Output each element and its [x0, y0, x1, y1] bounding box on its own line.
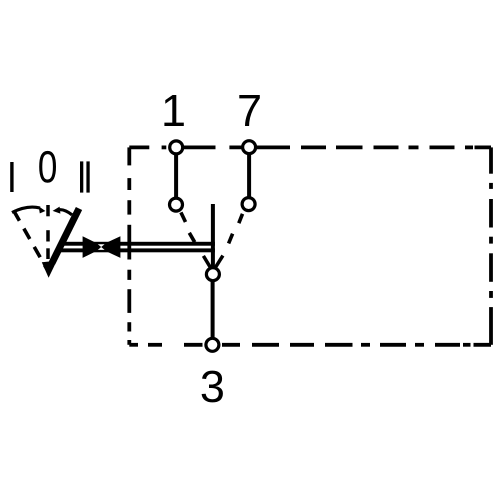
- terminal 3 circle: [206, 338, 219, 351]
- terminal 7 label: [239, 95, 259, 126]
- position label I: [10, 162, 13, 192]
- position label II: [80, 161, 90, 192]
- actuator linkage double line (lower): [61, 248, 215, 252]
- component outline box top edge (dash-dot): [129, 145, 491, 149]
- component outline box bottom edge (dash-dot): [129, 343, 491, 347]
- detent symbol (bowtie): [83, 236, 121, 258]
- position I dashed pointer line: [14, 210, 49, 272]
- arc arrow left (I to 0): [12, 206, 45, 213]
- wire: moving contact to terminal 3: [211, 280, 215, 339]
- terminal 3 label: [202, 371, 223, 403]
- common pole wire (vertical, upper part): [211, 204, 215, 268]
- component outline box right edge (dash-dot): [489, 147, 493, 344]
- terminal 1 circle: [170, 141, 183, 154]
- position label 0: [39, 151, 56, 183]
- actuator linkage double line (upper): [61, 242, 215, 246]
- lever (position II, solid) with arrowhead: [42, 209, 79, 278]
- position 0 dashed pointer line: [46, 205, 50, 259]
- terminal 1 label: [164, 95, 183, 126]
- fixed contact 1 circle: [170, 198, 183, 211]
- dashed throw line toward contact 1: [181, 212, 195, 242]
- component outline box left edge (dash-dot): [127, 147, 131, 344]
- terminal 7 circle: [243, 141, 256, 154]
- wire: terminal 7 to fixed contact 7: [247, 152, 251, 197]
- moving contact circle: [206, 268, 219, 281]
- dashed throw line toward contact 7: [229, 214, 243, 244]
- arc arrow right (II to 0): [53, 207, 72, 215]
- wire: terminal 1 to fixed contact 1: [174, 152, 178, 198]
- fixed contact 7 circle: [242, 198, 255, 211]
- open arrowhead on moving contact: [203, 256, 223, 268]
